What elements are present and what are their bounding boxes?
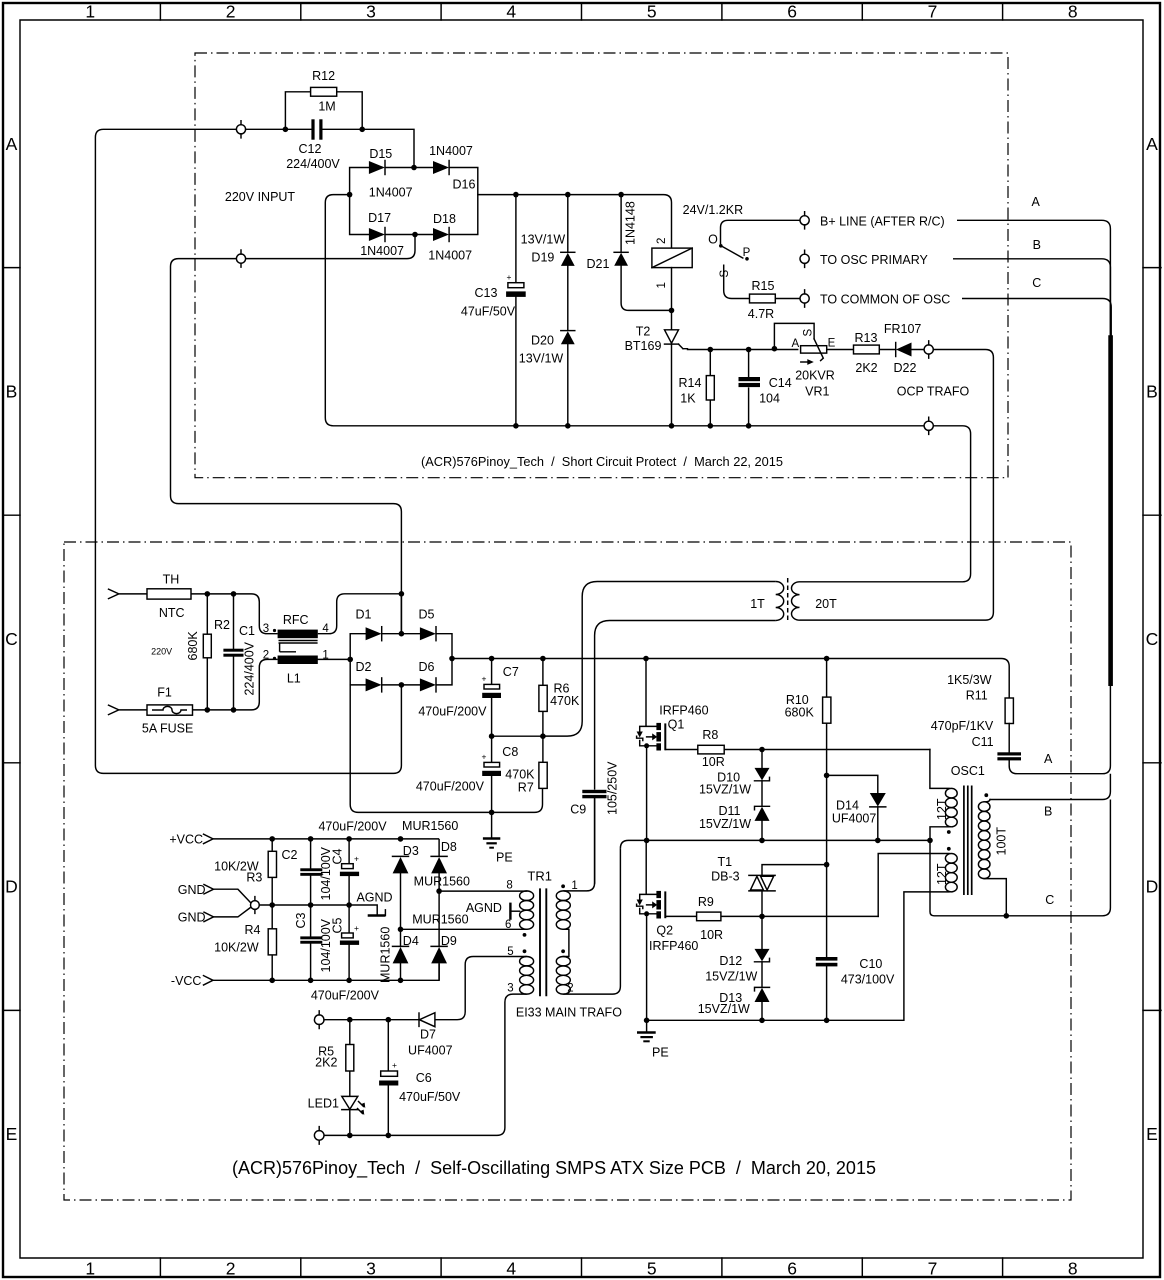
diode D18	[428, 212, 472, 262]
svg-text:473/100V: 473/100V	[841, 973, 895, 987]
GND terminal circle	[214, 889, 260, 917]
svg-text:UF4007: UF4007	[408, 1043, 453, 1057]
svg-text:B: B	[1146, 382, 1158, 402]
diode D3 MUR1560	[393, 844, 419, 929]
svg-text:680K: 680K	[785, 706, 815, 720]
wire from terminal1 left and down to D2/D6 node	[95, 129, 401, 773]
wire R8 line to 12T-1 top	[930, 750, 949, 789]
zener D10	[699, 750, 770, 797]
svg-text:+: +	[392, 1060, 397, 1070]
svg-text:D11: D11	[718, 804, 740, 818]
node rail Q1 source	[644, 838, 650, 844]
svg-text:6: 6	[787, 2, 797, 22]
node rail C13 bottom	[513, 423, 519, 429]
resistor R10	[785, 659, 831, 957]
wire 12T-2 top lead	[878, 854, 949, 917]
resistor R8 with gate wire	[665, 728, 930, 769]
node bottom rail Q2	[644, 1018, 650, 1024]
wire rail down to TR1 pin2	[563, 848, 620, 994]
diode D16	[429, 144, 475, 192]
OCP transformer core	[787, 578, 789, 622]
svg-text:B: B	[6, 382, 18, 402]
OCP transformer 1T winding	[776, 582, 784, 621]
phase dot 12T upper	[947, 830, 951, 834]
svg-text:C5: C5	[331, 917, 345, 933]
node rail D14	[875, 838, 881, 844]
SCR gate wire to VR1/R13	[688, 349, 925, 351]
diode D17	[360, 211, 404, 258]
svg-text:47uF/50V: 47uF/50V	[461, 305, 516, 319]
diode D8 MUR1560	[431, 840, 457, 946]
wire F1 to RFC pin2	[193, 659, 278, 710]
wire TH to RFC pin3	[191, 594, 278, 634]
svg-text:R11: R11	[966, 689, 988, 703]
phase dot pin2 winding	[561, 949, 565, 953]
input arrow line 2	[109, 705, 148, 714]
TR1 right winding upper	[556, 891, 570, 901]
capacitor C8 polarized	[416, 736, 518, 812]
node bottom rail C10	[824, 1018, 830, 1024]
svg-text:LED1: LED1	[308, 1096, 339, 1110]
svg-text:1N4007: 1N4007	[369, 186, 413, 200]
svg-text:D5: D5	[419, 608, 435, 622]
capacitor C9	[570, 761, 619, 883]
diode D1	[356, 608, 382, 641]
wire bridge2 ac down to D1/D5	[400, 594, 402, 634]
svg-text:R3: R3	[246, 871, 262, 885]
wire top LED rail	[324, 1019, 419, 1021]
node rail R6	[540, 656, 546, 662]
LED1	[308, 1096, 366, 1135]
svg-text:8: 8	[1068, 1259, 1078, 1279]
OSC1 winding 100T	[978, 802, 990, 812]
svg-text:B: B	[1033, 238, 1041, 252]
rail -VCC	[213, 964, 439, 981]
thermistor TH NTC	[147, 572, 191, 620]
wire net B lower (bus to 100T top)	[990, 774, 1111, 800]
svg-text:D3: D3	[403, 844, 419, 858]
svg-text:S: S	[803, 329, 815, 337]
svg-text:RFC: RFC	[283, 613, 309, 627]
capacitor C3	[300, 905, 322, 980]
node Q2 source	[644, 911, 649, 916]
svg-text:2: 2	[226, 2, 236, 22]
node pin1 bridge left	[347, 657, 353, 663]
node bridge2 right mid / main DC rail	[449, 656, 455, 662]
bottom rail Q2 source	[647, 1019, 904, 1021]
mid rail (Q1 source / Q2 drain)	[620, 840, 930, 848]
dash-dot box short circuit protect section	[195, 53, 1008, 478]
grid column dividers bottom	[160, 1258, 1002, 1277]
resistor R6	[539, 659, 580, 737]
svg-text:D7: D7	[420, 1027, 436, 1041]
wire OCP1 to 20T bottom	[800, 350, 994, 621]
node R2 bottom	[205, 707, 211, 713]
zener D20	[519, 331, 575, 426]
svg-text:VR1: VR1	[805, 385, 829, 399]
svg-text:C9: C9	[570, 803, 586, 817]
svg-text:(ACR)576Pinoy_Tech / Self-Os: (ACR)576Pinoy_Tech / Self-Oscillating SM…	[232, 1158, 876, 1179]
svg-text:(ACR)576Pinoy_Tech / Short C: (ACR)576Pinoy_Tech / Short Circuit Prote…	[421, 454, 783, 469]
zener D12	[705, 916, 769, 983]
svg-text:6: 6	[505, 919, 511, 931]
TR1 right winding lower	[556, 957, 570, 966]
OCP transformer 20T winding	[792, 582, 800, 620]
node rail Q1 drain	[643, 656, 649, 662]
node bridge1 left mid	[347, 192, 353, 198]
svg-text:A: A	[1146, 134, 1158, 154]
grid row dividers left	[3, 268, 20, 1011]
phase dot pin5 side	[523, 949, 527, 953]
zener D11	[699, 781, 770, 841]
bridge rectifier 1 frame wires	[350, 168, 478, 235]
svg-text:D1: D1	[356, 608, 372, 622]
diode D15	[369, 147, 413, 200]
svg-text:C: C	[1045, 893, 1054, 907]
terminal OCP trafo 2	[924, 417, 933, 434]
svg-text:D22: D22	[894, 361, 917, 375]
capacitor C14	[739, 350, 792, 426]
node C1 bottom	[231, 707, 237, 713]
main DC+ rail	[452, 659, 1009, 699]
node mid C7/R6	[489, 733, 495, 739]
svg-text:470K: 470K	[505, 768, 535, 782]
svg-text:C8: C8	[502, 745, 518, 759]
svg-text:E: E	[1146, 1124, 1158, 1144]
node mvcc D4	[398, 978, 404, 984]
svg-text:C12: C12	[299, 142, 322, 156]
svg-text:A: A	[791, 338, 799, 350]
svg-text:+: +	[482, 752, 487, 762]
svg-text:1N4007: 1N4007	[429, 144, 473, 158]
phase dot 12T lower	[947, 847, 951, 851]
capacitor C5 polarized	[340, 905, 359, 980]
svg-text:10K/2W: 10K/2W	[214, 941, 259, 955]
svg-text:TH: TH	[163, 572, 180, 586]
wire terminal2 right to bridge1	[246, 235, 415, 259]
svg-text:15VZ/1W: 15VZ/1W	[699, 783, 751, 797]
node rail C7	[489, 656, 495, 662]
node bridge1 top mid	[411, 165, 417, 171]
phase dot pin6 side	[523, 933, 527, 937]
node R10/D14 branch	[824, 773, 830, 779]
svg-text:D: D	[1146, 877, 1159, 897]
potentiometer VR1 20KVR	[772, 323, 836, 398]
svg-text:GND: GND	[178, 883, 206, 897]
svg-text:A: A	[6, 134, 18, 154]
svg-text:10R: 10R	[702, 755, 725, 769]
svg-text:+: +	[507, 272, 512, 282]
svg-text:1N4007: 1N4007	[360, 244, 404, 258]
node R5 bottom	[347, 1133, 353, 1139]
wire 1T top lead to C7/C8 midpoint	[543, 582, 776, 737]
svg-text:2: 2	[263, 650, 269, 662]
svg-text:3: 3	[366, 1259, 376, 1279]
arrow GND 1	[204, 885, 214, 894]
node D2/D6	[399, 682, 405, 688]
wire OCP2 to 20T top	[800, 426, 971, 582]
svg-text:AGND: AGND	[356, 891, 392, 905]
svg-text:B+ LINE (AFTER R/C): B+ LINE (AFTER R/C)	[820, 214, 945, 228]
node C6 top	[386, 1017, 392, 1023]
node mvcc R4	[269, 978, 275, 984]
relay switch contact O-P	[708, 220, 800, 260]
TR1 AGND tap	[466, 901, 520, 920]
node D8 pin8	[436, 888, 442, 894]
svg-text:S: S	[719, 270, 731, 278]
diode D7 UF4007	[408, 957, 527, 1058]
node rail R10	[824, 656, 830, 662]
svg-text:A: A	[1044, 752, 1053, 766]
svg-text:1N4007: 1N4007	[428, 248, 472, 262]
OSC1 winding 12T lower	[945, 854, 957, 864]
svg-text:D6: D6	[419, 660, 435, 674]
capacitor C11	[931, 719, 1021, 766]
resistor R12	[285, 69, 362, 129]
svg-text:15VZ/1W: 15VZ/1W	[705, 970, 757, 984]
terminal LED top	[314, 1011, 324, 1029]
svg-text:1: 1	[85, 2, 95, 22]
node R8/D10	[759, 747, 765, 753]
svg-text:UF4007: UF4007	[832, 812, 877, 826]
node mvcc C3	[308, 978, 314, 984]
wire 12T-2 bottom lead	[904, 892, 949, 1020]
node relay/D21	[669, 308, 675, 314]
terminal OCP trafo 1	[924, 341, 933, 358]
resistor R9 with gate wire	[665, 895, 878, 942]
node R9/T1/D12	[759, 914, 765, 920]
TR1 core	[540, 888, 546, 996]
grid column dividers top	[160, 3, 1002, 20]
capacitor C10	[816, 957, 895, 1020]
capacitor C1	[223, 594, 256, 711]
svg-text:C2: C2	[282, 848, 298, 862]
svg-text:C13: C13	[475, 286, 498, 300]
TR1 pin1 lead to C9	[563, 799, 594, 891]
wire net B to right bus	[953, 259, 1110, 336]
svg-text:2: 2	[656, 238, 668, 244]
svg-text:R15: R15	[752, 279, 775, 293]
svg-text:TO OSC PRIMARY: TO OSC PRIMARY	[820, 253, 929, 267]
svg-text:C4: C4	[331, 848, 345, 864]
svg-text:D18: D18	[433, 212, 456, 226]
wire RFC pin4 up to bridge2 ac rail	[318, 594, 402, 634]
node bridge1 bottom mid	[412, 232, 418, 238]
node bridge2 ac top	[399, 591, 405, 597]
svg-text:104: 104	[759, 392, 780, 406]
node agnd C4/C5	[346, 902, 352, 908]
terminal 220V input line 2	[236, 250, 245, 267]
TR1 pin6 lead	[401, 928, 527, 930]
node agnd C2/C3	[308, 902, 314, 908]
TR1 winding pins 5-3	[520, 957, 534, 966]
svg-text:IRFP460: IRFP460	[649, 939, 698, 953]
rail +VCC	[213, 839, 439, 857]
svg-text:4.7R: 4.7R	[748, 307, 774, 321]
relay contact S wire with R15	[719, 265, 800, 322]
svg-text:C10: C10	[859, 957, 882, 971]
wire 100T bottom to C node	[984, 879, 1006, 916]
svg-text:4: 4	[506, 2, 516, 22]
svg-text:D9: D9	[441, 934, 457, 948]
svg-text:R4: R4	[245, 923, 261, 937]
wire net A lower (C11 to bus)	[1009, 686, 1110, 774]
svg-text:3: 3	[507, 983, 513, 995]
svg-text:680K: 680K	[186, 631, 200, 661]
bridge2 left vertical down to PE rail	[350, 634, 542, 813]
svg-text:Q1: Q1	[668, 718, 685, 732]
svg-text:12T: 12T	[935, 863, 949, 885]
resistor R5	[315, 1020, 354, 1097]
svg-text:470pF/1KV: 470pF/1KV	[931, 719, 994, 733]
svg-text:B: B	[1044, 805, 1052, 819]
svg-text:EI33 MAIN TRAFO: EI33 MAIN TRAFO	[516, 1005, 622, 1019]
svg-text:AGND: AGND	[466, 901, 502, 915]
svg-text:2: 2	[226, 1259, 236, 1279]
svg-text:D12: D12	[719, 954, 742, 968]
svg-text:5: 5	[647, 1259, 657, 1279]
svg-text:D8: D8	[441, 840, 457, 854]
diac T1 DB-3	[711, 855, 826, 916]
svg-text:E: E	[828, 337, 836, 349]
svg-text:R14: R14	[679, 376, 702, 390]
svg-text:GND: GND	[178, 911, 206, 925]
svg-text:R13: R13	[855, 331, 878, 345]
svg-text:+: +	[354, 854, 359, 864]
OSC1 winding 12T upper	[945, 788, 957, 798]
svg-text:PE: PE	[496, 851, 513, 865]
svg-text:8: 8	[506, 879, 512, 891]
terminal B+ line	[800, 212, 945, 229]
svg-text:C6: C6	[416, 1071, 432, 1085]
svg-text:5: 5	[647, 2, 657, 22]
svg-text:D4: D4	[403, 934, 419, 948]
wire bridge1 left mid to SCP common rail	[325, 195, 924, 426]
svg-text:C1: C1	[239, 624, 255, 638]
svg-text:F1: F1	[157, 686, 172, 700]
svg-text:MUR1560: MUR1560	[414, 875, 470, 889]
svg-text:R7: R7	[518, 781, 534, 795]
node D3/D4 pin6	[398, 927, 404, 933]
diode D4 MUR1560	[393, 929, 419, 980]
node vcc D3	[398, 836, 404, 842]
svg-text:1: 1	[85, 1259, 95, 1279]
svg-text:D21: D21	[587, 257, 610, 271]
input arrow line 1	[109, 589, 148, 598]
svg-text:C11: C11	[972, 735, 994, 749]
svg-text:470uF/50V: 470uF/50V	[399, 1090, 461, 1104]
resistor R14	[679, 350, 715, 426]
svg-text:+VCC: +VCC	[169, 833, 203, 847]
wire 1T bottom lead to C9	[595, 621, 776, 790]
svg-text:470K: 470K	[550, 694, 580, 708]
node C6 bottom	[386, 1133, 392, 1139]
node vcc R3	[269, 836, 275, 842]
fuse F1	[142, 686, 193, 736]
svg-text:R9: R9	[698, 895, 714, 909]
svg-text:6: 6	[787, 1259, 797, 1279]
svg-text:224/400V: 224/400V	[243, 641, 257, 695]
svg-text:220V: 220V	[151, 647, 172, 657]
svg-text:D: D	[5, 877, 18, 897]
svg-text:2: 2	[567, 983, 573, 995]
node rail 12T-1 bottom	[927, 838, 933, 844]
node PE rail C8	[489, 810, 495, 816]
TR1 right winding jog	[563, 929, 569, 956]
svg-text:A: A	[1032, 195, 1041, 209]
terminal to common of osc	[800, 290, 950, 307]
svg-text:2K2: 2K2	[855, 361, 877, 375]
ground PE main	[483, 812, 513, 864]
svg-text:C: C	[1032, 276, 1041, 290]
wire net A to right bus	[957, 220, 1110, 336]
svg-text:T2: T2	[636, 324, 651, 338]
svg-text:MUR1560: MUR1560	[379, 927, 393, 983]
wire RFC pin1 to bridge2 left	[318, 658, 350, 660]
OSC1 core	[964, 786, 972, 896]
AGND mid rail	[259, 905, 377, 915]
mosfet Q1 IRFP460	[637, 659, 709, 841]
svg-text:D20: D20	[531, 334, 554, 348]
svg-text:12T: 12T	[935, 798, 949, 820]
svg-text:D19: D19	[531, 251, 554, 265]
svg-text:C: C	[1146, 629, 1159, 649]
svg-text:224/400V: 224/400V	[286, 157, 340, 171]
terminal LED bottom	[314, 1127, 324, 1145]
AGND symbol	[356, 891, 392, 916]
capacitor C4 polarized	[340, 839, 359, 905]
node C line	[1004, 913, 1010, 919]
svg-text:5A FUSE: 5A FUSE	[142, 722, 193, 736]
bridge2 arm wires	[350, 634, 452, 685]
svg-text:FR107: FR107	[884, 322, 922, 336]
node T1 branch	[824, 862, 830, 868]
node rail D11	[759, 838, 765, 844]
svg-text:15VZ/1W: 15VZ/1W	[698, 1002, 750, 1016]
svg-text:470uF/200V: 470uF/200V	[311, 989, 380, 1003]
TR1 winding pins 8-6	[520, 891, 534, 901]
svg-text:C3: C3	[294, 912, 308, 928]
svg-text:13V/1W: 13V/1W	[521, 233, 566, 247]
svg-text:1K5/3W: 1K5/3W	[947, 673, 992, 687]
svg-text:1N4148: 1N4148	[624, 201, 638, 245]
wire mid rail	[492, 735, 543, 737]
svg-text:IRFP460: IRFP460	[659, 704, 708, 718]
svg-text:1: 1	[656, 282, 668, 288]
resistor R4	[214, 905, 276, 980]
svg-text:T1: T1	[718, 855, 733, 869]
wire terminal1 to C12	[246, 129, 414, 167]
phase dot pin1	[561, 884, 565, 888]
wire net C lower (bus to rail)	[930, 800, 1110, 916]
svg-text:E: E	[6, 1124, 18, 1144]
diode D2	[356, 660, 382, 692]
TR1 pin8 lead	[439, 890, 526, 892]
svg-text:7: 7	[928, 1259, 938, 1279]
node rail D21	[618, 192, 624, 198]
dash-dot box smps main section	[64, 542, 1071, 1200]
svg-text:C: C	[5, 629, 18, 649]
svg-text:105/250V: 105/250V	[606, 761, 620, 815]
svg-text:TR1: TR1	[527, 868, 552, 883]
svg-text:470uF/200V: 470uF/200V	[318, 820, 387, 834]
arrow -VCC	[204, 976, 214, 985]
diode D5	[419, 608, 436, 641]
node C1 top	[231, 591, 237, 597]
diode D6	[419, 660, 436, 692]
thick bundle bus bar	[1108, 335, 1113, 686]
svg-text:D15: D15	[369, 147, 392, 161]
